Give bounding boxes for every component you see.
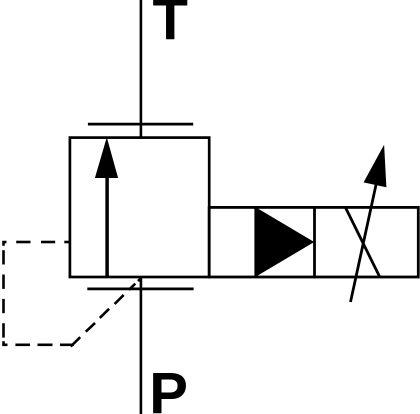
svg-text:T: T [152, 0, 187, 52]
svg-text:P: P [149, 361, 188, 414]
